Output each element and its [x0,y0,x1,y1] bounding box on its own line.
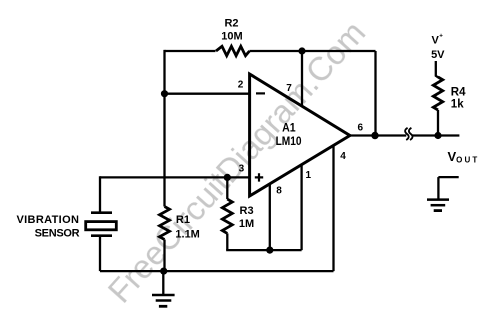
wire: sensor top lead [99,176,101,211]
svg-text:R3: R3 [240,205,254,217]
svg-text:1M: 1M [239,218,254,230]
svg-text:VOUT: VOUT [448,149,480,165]
svg-text:1: 1 [306,170,312,181]
node: R4 bottom junction [434,132,441,139]
svg-text:1.1M: 1.1M [175,228,199,240]
node: top wire / pin7 junction [298,47,305,54]
wire: left vertical upper (top wire to R1) [163,50,165,207]
op-amp plus input symbol [255,173,263,181]
wire break symbol [405,128,412,140]
svg-text:1k: 1k [451,99,464,111]
svg-text:7: 7 [286,83,292,94]
resistor R4 1k (vertical zigzag) [433,77,442,110]
wire: pin 7 [301,51,303,106]
wire: output (apex to break) [350,134,406,136]
node: pin2/left vertical junction [161,90,168,97]
wire: Vout ground stub horizontal [438,176,458,178]
node: pin8 junction [266,247,273,254]
svg-text:V+: V+ [432,33,444,47]
wire: R4 bottom lead [437,110,439,136]
wire: R3 bottom lead [226,233,228,250]
svg-text:R4: R4 [451,86,466,98]
wire: pin 2 input [165,93,250,95]
wire: sensor bottom lead [99,237,101,271]
wire: left vertical lower (R1 to bottom wire) [163,240,165,272]
svg-text:3: 3 [239,163,245,174]
svg-text:FreeCircuitDiagram.Com: FreeCircuitDiagram.Com [101,14,373,310]
wire: R4 top lead [436,61,438,77]
node: output junction [371,132,378,139]
svg-text:10M: 10M [221,31,242,43]
ground (bottom center) [152,271,175,306]
wire: output (break to Vout) [412,134,460,136]
wire: R3 to pin1 horizontal [226,249,301,251]
svg-text:LM10: LM10 [276,134,302,148]
wire: pin 3 input [100,176,250,178]
svg-text:6: 6 [358,123,364,134]
svg-text:8: 8 [276,186,282,197]
wire: top feedback right segment (R2 to output branch) [250,50,376,52]
svg-text:R1: R1 [176,214,190,226]
node: pin3/R3 junction [224,174,231,181]
wire: pin 8 [269,184,271,250]
ground (Vout reference) [427,200,449,211]
wire: pin 4 [332,146,334,272]
wire: bottom ground wire [100,270,334,272]
op-amp A1 LM10 (triangle) [250,74,350,196]
svg-text:2: 2 [238,80,244,91]
svg-text:SENSOR: SENSOR [35,228,80,240]
wire: top feedback left segment (pin2 node to R2) [165,50,216,52]
node: bottom wire / ground junction [160,268,167,275]
vibration sensor (piezo symbol) [86,213,117,236]
svg-text:4: 4 [340,151,346,162]
wire: R3 top lead [226,177,228,199]
svg-text:A1: A1 [282,121,296,135]
resistor R1 1.1M (vertical zigzag) [160,207,170,240]
resistor R3 1M (vertical zigzag) [222,199,232,233]
svg-text:VIBRATION: VIBRATION [16,214,79,226]
op-amp minus input symbol [256,92,265,94]
wire: output branch vertical (top wire to output) [374,51,376,136]
wire: pin 1 [300,165,302,250]
wire: Vout ground stub vertical [437,177,439,200]
svg-text:R2: R2 [224,18,238,30]
svg-text:5V: 5V [431,49,445,61]
resistor R2 10M (horizontal zigzag) [216,46,250,55]
